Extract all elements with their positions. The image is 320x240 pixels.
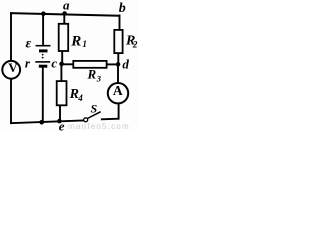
wire d to ammeter <box>117 63 119 83</box>
resistor R1 <box>59 24 87 51</box>
wire left lower <box>10 79 12 124</box>
wire c to R3 <box>62 63 74 65</box>
wire top (a-b rail) <box>10 13 120 16</box>
svg-text:c: c <box>51 56 57 71</box>
wire left upper <box>10 12 12 60</box>
wire battery top lead <box>42 14 44 46</box>
ammeter A <box>108 83 128 104</box>
wire b corner to R2 <box>119 15 121 31</box>
wire R1 to c <box>61 51 63 65</box>
battery dotted gap <box>42 54 44 59</box>
svg-text:V: V <box>8 60 18 75</box>
wire R4 to e <box>59 105 61 122</box>
svg-text:a: a <box>63 0 70 13</box>
wire R2 to d <box>117 53 119 64</box>
svg-text:R: R <box>70 34 81 50</box>
wire bottom right (switch to ammeter corner) <box>101 104 119 120</box>
node e <box>57 119 62 124</box>
node battery-bottom junction <box>39 120 44 125</box>
battery cell 1 <box>36 46 51 51</box>
svg-text:1: 1 <box>82 39 87 49</box>
battery cell 2 <box>35 62 50 66</box>
wire c to R4 <box>60 64 62 82</box>
switch S <box>84 102 101 122</box>
svg-text:ε: ε <box>26 37 32 52</box>
svg-text:2: 2 <box>132 40 138 50</box>
svg-text:A: A <box>113 83 123 98</box>
voltmeter V <box>2 60 20 79</box>
resistor R4 <box>57 81 83 105</box>
svg-text:4: 4 <box>77 93 83 103</box>
svg-text:R: R <box>87 67 97 82</box>
node c <box>59 62 64 67</box>
wire bottom left (to switch) <box>10 120 84 123</box>
wire R3 to d <box>107 63 118 65</box>
svg-text:d: d <box>122 57 129 72</box>
svg-text:manfen5.com: manfen5.com <box>68 122 130 131</box>
node a <box>62 11 67 16</box>
wire battery bottom lead <box>42 68 44 123</box>
wire a to R1 <box>63 14 65 25</box>
svg-text:b: b <box>119 1 126 16</box>
node d <box>116 62 121 67</box>
resistor R3 <box>73 61 106 84</box>
resistor R2 <box>114 30 138 53</box>
svg-text:3: 3 <box>96 74 102 84</box>
svg-text:S: S <box>90 102 97 116</box>
node battery-top junction <box>41 11 46 16</box>
